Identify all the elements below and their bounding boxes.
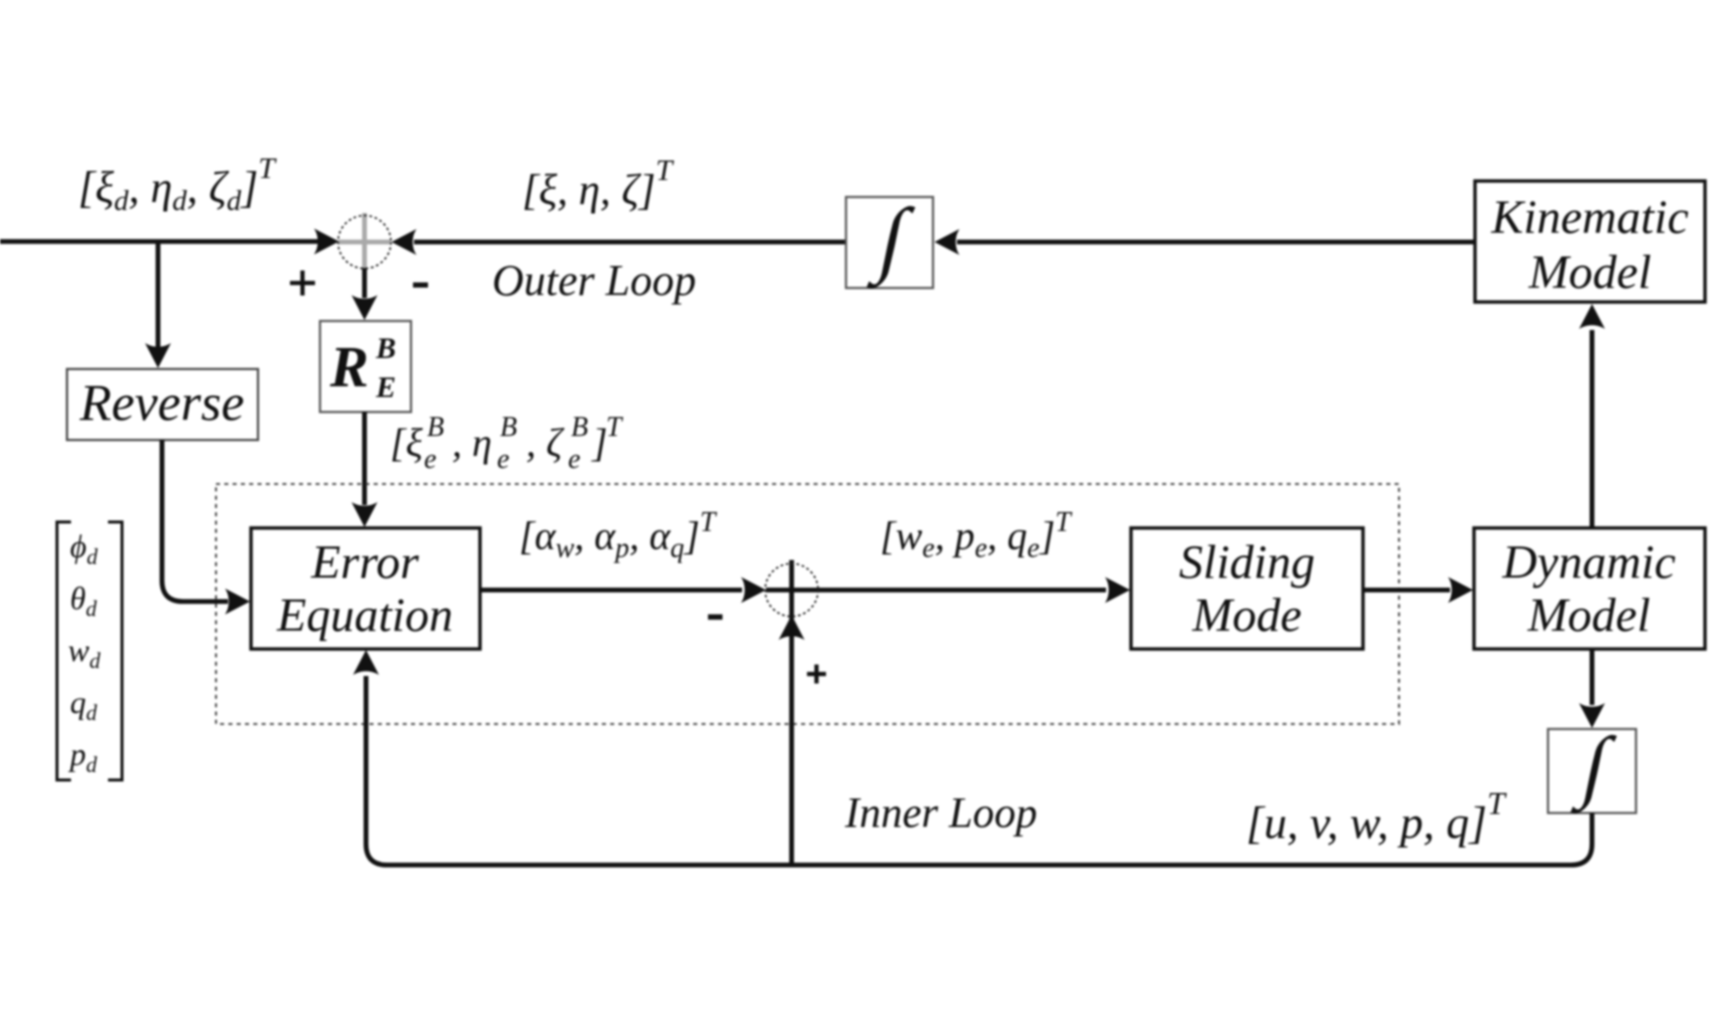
arrowhead into summing junction S1 left: [314, 229, 339, 255]
plus sign at S2: [807, 665, 826, 684]
svg-text:B: B: [427, 412, 444, 443]
integrator block I1: [846, 192, 933, 289]
svg-text:e: e: [424, 444, 436, 475]
svg-text:e: e: [497, 444, 509, 475]
svg-text:e: e: [568, 444, 580, 475]
svg-text:Inner Loop: Inner Loop: [844, 790, 1037, 837]
svg-text:Outer Loop: Outer Loop: [492, 256, 696, 305]
svg-text:Dynamic: Dynamic: [1501, 536, 1675, 589]
svg-text:Error: Error: [310, 536, 419, 589]
svg-text:T: T: [606, 412, 624, 443]
arrowhead into S2 left: [741, 577, 766, 603]
svg-text:Reverse: Reverse: [79, 375, 245, 432]
arrowhead into Kinematic Model bottom: [1579, 304, 1605, 329]
block Error Equation: [251, 528, 480, 649]
wire: reference input line: [0, 239, 320, 244]
wire: Reverse down and right to Error Equation: [162, 440, 228, 602]
minus sign at S2: [708, 614, 723, 619]
svg-text:η: η: [472, 420, 492, 465]
wire: Kinematic Model to integrator1: [957, 240, 1475, 245]
svg-text:B: B: [375, 332, 396, 365]
wire: Error Equation to S2: [481, 588, 742, 593]
svg-text:Model: Model: [1527, 589, 1651, 642]
desired-state column vector [phi_d; theta_d; w_d; q_d; p_d]: [57, 522, 122, 780]
integrator block I2: [1548, 722, 1636, 814]
arrowhead into R_E^B top: [352, 295, 378, 320]
svg-text:Kinematic: Kinematic: [1490, 191, 1688, 244]
arrowhead into S1 right: [392, 229, 417, 255]
dashed inner-loop boundary: [216, 484, 1399, 724]
svg-text:B: B: [571, 412, 588, 443]
arrowhead into Sliding Mode left: [1105, 577, 1130, 603]
svg-text:,: ,: [452, 420, 462, 465]
summing junction S1: [338, 213, 391, 269]
wire: Sliding Mode to Dynamic Model: [1363, 588, 1450, 593]
arrowhead into integrator2 top: [1579, 703, 1605, 728]
svg-text:B: B: [500, 412, 517, 443]
rotation block R_E^B: [320, 321, 411, 412]
wire: Dynamic Model down to integrator2: [1590, 649, 1595, 705]
svg-text:Sliding: Sliding: [1179, 536, 1315, 589]
svg-text:[ξ: [ξ: [390, 420, 424, 465]
block Sliding Mode: [1131, 528, 1363, 649]
minus sign at S1: [413, 282, 428, 287]
block Kinematic Model: [1475, 181, 1705, 302]
svg-text:ζ: ζ: [546, 420, 565, 465]
wire: feedback branch up into S2: [789, 640, 794, 865]
block Reverse: [67, 369, 258, 440]
arrowhead into Reverse top: [145, 343, 171, 368]
wire: Dynamic Model up to Kinematic Model: [1590, 330, 1595, 528]
wire: R_E^B down to Error Equation: [362, 412, 367, 505]
wire: feedback line from integrator2 to Error Equation and S2: [366, 676, 1592, 865]
summing junction S2: [765, 560, 1106, 640]
arrowhead into I1 right: [935, 229, 960, 255]
svg-text:R: R: [329, 334, 369, 399]
block Dynamic Model: [1474, 528, 1705, 649]
wire: integrator1 to S1: [414, 240, 846, 245]
svg-text:Mode: Mode: [1191, 589, 1301, 642]
arrowhead into Error Equation bottom: [353, 650, 379, 675]
svg-text:,: ,: [526, 420, 536, 465]
svg-text:Model: Model: [1528, 246, 1652, 299]
svg-text:E: E: [375, 371, 396, 404]
plus sign at S1: [290, 271, 315, 296]
arrowhead into Error Equation left: [225, 589, 250, 615]
arrowhead into Dynamic Model left: [1448, 577, 1473, 603]
arrowhead into Error Equation top: [352, 502, 378, 527]
svg-text:Equation: Equation: [276, 589, 453, 642]
arrowhead into S2 bottom: [779, 615, 805, 640]
wire: S1 down to rotation block: [362, 268, 367, 298]
node label [xi_d, eta_d, zeta_d]^T: [78, 152, 277, 217]
wire: branch down to Reverse: [156, 242, 161, 349]
node label [xi_e^B, eta_e^B, zeta_e^B]^T: [390, 412, 624, 475]
